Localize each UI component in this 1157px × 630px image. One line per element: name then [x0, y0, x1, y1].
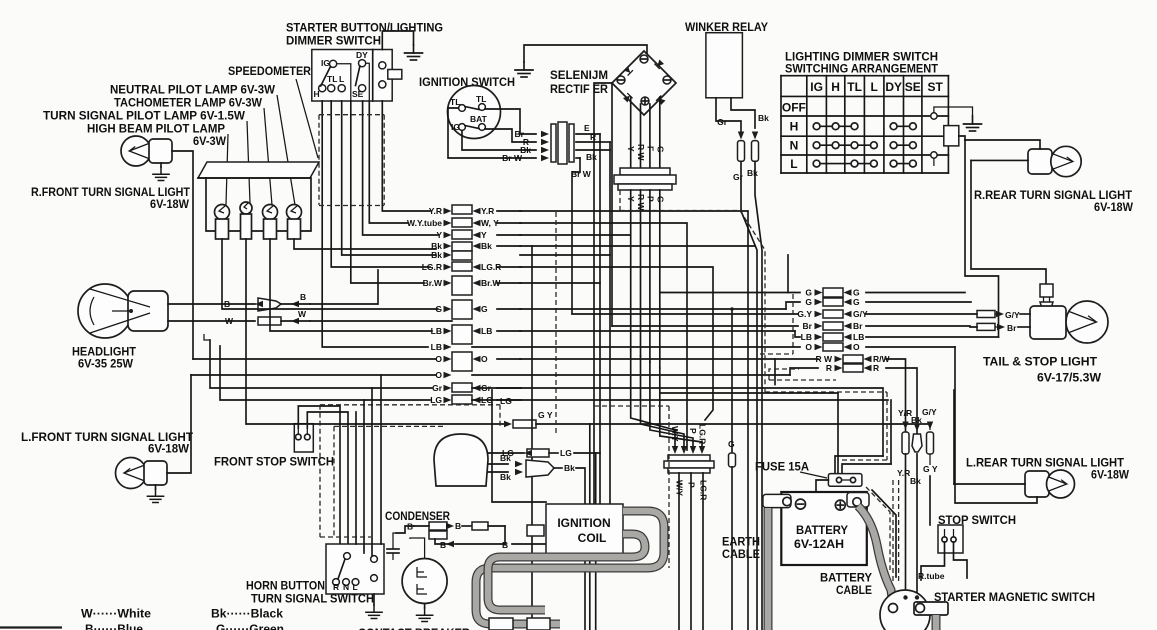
battery cable (thick): [858, 506, 893, 605]
lamp tail and stop light: [1030, 306, 1066, 339]
relay wire Bk: [731, 98, 755, 128]
terminal IG: [330, 60, 337, 67]
svg-text:TACHOMETER LAMP 6V-3W: TACHOMETER LAMP 6V-3W: [114, 96, 263, 110]
wire SE from dimmer: [363, 101, 438, 235]
pilot lamp bulb 3 (tachometer): [263, 205, 278, 220]
svg-text:B······Blue: B······Blue: [85, 622, 143, 630]
wire rectifier left corner: [594, 83, 612, 560]
wire IG from dimmer: [351, 101, 424, 283]
svg-text:SPEEDOMETER: SPEEDOMETER: [228, 64, 311, 78]
svg-text:IGNITION: IGNITION: [557, 516, 610, 530]
svg-text:Gr: Gr: [717, 117, 728, 127]
harness run Y: [520, 234, 631, 236]
wires ignition switch to connector: [485, 109, 536, 134]
table contacts row N: [813, 142, 916, 149]
svg-text:Y: Y: [481, 230, 487, 240]
svg-text:STARTER BUTTON/LIGHTING: STARTER BUTTON/LIGHTING: [286, 21, 443, 35]
svg-text:Br: Br: [853, 321, 863, 331]
earth cable (thick): [764, 508, 773, 630]
wire to r.rear lamp (top): [965, 140, 1040, 149]
harness run G: [520, 308, 786, 310]
wire H from dimmer: [322, 101, 428, 347]
starter button contacts: [379, 62, 386, 69]
rear connector row G y=302: [823, 298, 843, 306]
wires below bullets: [741, 161, 757, 630]
bullet connector G: [731, 309, 733, 453]
terminal DY: [359, 60, 366, 67]
condenser capacitor symbol: [393, 533, 396, 549]
svg-text:STARTER MAGNETIC SWITCH: STARTER MAGNETIC SWITCH: [934, 590, 1095, 604]
svg-text:LG: LG: [430, 395, 442, 405]
svg-text:R: R: [590, 132, 596, 142]
spark plug cable outer: [476, 511, 664, 624]
ground near rectifier feed: [524, 45, 647, 62]
svg-text:NEUTRAL PILOT LAMP 6V-3W: NEUTRAL PILOT LAMP 6V-3W: [110, 83, 276, 97]
dashed run to starter: [866, 487, 890, 570]
harness branch down from horn LG: [595, 453, 597, 630]
wire speedo bulb3 down: [270, 239, 432, 331]
hb switch lever: [338, 559, 345, 579]
dashed boundary near alternator: [594, 405, 669, 407]
svg-text:P: P: [646, 196, 656, 202]
fuse 15A: [828, 474, 862, 487]
horn body: [434, 434, 488, 486]
connector row Gr y=388: [452, 383, 472, 392]
pilot lamp bulb 4 (neutral): [287, 205, 302, 220]
rear connector row R y=368: [843, 364, 863, 372]
wire E down: [599, 134, 601, 142]
bundle vertical x838: [660, 393, 838, 473]
wires into hb switch: [355, 412, 357, 544]
svg-text:B: B: [224, 299, 230, 309]
rear connector row G y=292.5: [823, 288, 843, 297]
svg-text:RECTIF ER: RECTIF ER: [550, 82, 608, 96]
svg-text:FRONT STOP SWITCH: FRONT STOP SWITCH: [214, 455, 334, 469]
scan artifact bar bottom left: [0, 626, 62, 628]
wire Br.W down: [572, 158, 580, 314]
wire to r.rear lamp (side): [971, 159, 1028, 161]
rectifier plus terminal bottom: [641, 97, 649, 105]
svg-text:LB: LB: [431, 342, 442, 352]
svg-text:Gr: Gr: [432, 383, 443, 393]
terminal TL: [328, 85, 335, 92]
svg-text:Bk······Black: Bk······Black: [211, 607, 283, 621]
wire L from dimmer: [342, 101, 436, 255]
svg-text:BATTERY: BATTERY: [796, 523, 848, 537]
connector row Y.R y=211: [452, 205, 472, 214]
svg-text:DIMMER SWITCH: DIMMER SWITCH: [286, 34, 381, 48]
svg-text:G/Y: G/Y: [1005, 310, 1020, 320]
svg-text:HORN BUTTON: HORN BUTTON: [246, 579, 325, 593]
svg-text:O: O: [853, 342, 860, 352]
ig-switch lever bottom: [465, 126, 479, 129]
ig-switch terminal TL: [459, 105, 466, 112]
svg-text:Y.R: Y.R: [897, 468, 910, 478]
hb switch terminals: [344, 553, 351, 560]
harness run Y.R: [520, 211, 748, 630]
lamp R front turn signal: [121, 136, 151, 166]
ground below l.front lamp: [147, 489, 163, 503]
svg-text:TL: TL: [450, 97, 460, 107]
dashed battery harness: [892, 480, 894, 582]
svg-text:H: H: [314, 89, 320, 99]
svg-text:LB: LB: [853, 332, 864, 342]
starter cable stub: [932, 615, 941, 630]
pilot lamp bulb 1 (high beam): [215, 205, 230, 220]
rectifier output connector: [620, 168, 670, 175]
harness run LB2: [472, 346, 800, 348]
dashed harness vertical: [555, 212, 557, 436]
spark plug caps: [489, 618, 513, 630]
lamp l.front turn signal: [116, 458, 147, 489]
connector right-side wires: [576, 133, 600, 135]
harness run Gr: [472, 388, 883, 456]
lighting dimmer switch arrangement table: [781, 76, 948, 173]
leads below connector: [630, 190, 632, 350]
staircase wires left field: [193, 358, 436, 360]
ground near dimmer switch: [405, 45, 423, 60]
svg-text:CONTACT BREAKER: CONTACT BREAKER: [358, 626, 470, 630]
bundle verticals to fuse: [890, 400, 892, 464]
svg-text:LG.R: LG.R: [698, 424, 708, 444]
svg-text:IG: IG: [451, 122, 460, 132]
svg-text:R W: R W: [636, 144, 646, 162]
wires from front stop switch: [298, 406, 340, 544]
svg-text:O: O: [481, 354, 488, 364]
stop switch pins: [296, 434, 302, 440]
harness run LB: [520, 330, 795, 332]
wire to l.rear lamp: [954, 483, 1025, 485]
inline connector B: [472, 522, 488, 530]
terminal H: [319, 85, 326, 92]
headlight wire B: [168, 303, 255, 305]
ig-switch terminal BAT: [479, 124, 486, 131]
ig-switch terminal TL2: [479, 104, 486, 111]
svg-text:COIL: COIL: [578, 531, 607, 545]
rectifier minus terminal left: [617, 76, 625, 84]
svg-text:TAIL & STOP LIGHT: TAIL & STOP LIGHT: [983, 355, 1098, 369]
svg-text:SELENIJM: SELENIJM: [550, 68, 608, 82]
svg-text:IG: IG: [321, 58, 330, 68]
harness run O2: [472, 374, 790, 376]
wire B to coil: [446, 541, 454, 547]
svg-text:W/Y: W/Y: [675, 480, 685, 496]
svg-text:W: W: [298, 309, 307, 319]
rectifier minus terminal top: [640, 55, 648, 63]
stop switch box: [938, 525, 963, 553]
wire speedo bulb2 down: [246, 239, 506, 424]
harness branch down from G.Y row: [589, 424, 591, 630]
svg-text:ST: ST: [927, 80, 943, 94]
battery plus terminal tab: [847, 493, 869, 508]
front stop switch box: [294, 424, 313, 452]
svg-text:6V-35 25W: 6V-35 25W: [78, 357, 134, 371]
bullet connector Gr: [738, 141, 745, 162]
horn spade connector: [526, 460, 554, 477]
svg-text:R: R: [873, 363, 879, 373]
svg-text:L: L: [790, 157, 797, 171]
rear connector row O y=347: [823, 343, 843, 351]
svg-text:B: B: [300, 292, 306, 302]
battery minus sign: [796, 499, 806, 509]
connector row Br.W y=283: [452, 276, 472, 295]
horn button turn signal switch box: [326, 544, 384, 594]
connector row Y y=235: [452, 230, 472, 239]
connector row Bk y=255: [452, 251, 472, 260]
svg-text:G: G: [805, 297, 812, 307]
svg-text:Br W: Br W: [502, 153, 523, 163]
svg-text:Bk: Bk: [481, 241, 492, 251]
dimmer lever DY-SE: [356, 66, 360, 86]
dimmer lever IG-H: [321, 67, 331, 87]
svg-text:Br.W: Br.W: [423, 278, 443, 288]
svg-text:W: W: [225, 316, 234, 326]
svg-text:P: P: [687, 482, 697, 488]
connector row Bk y=246: [452, 242, 472, 251]
svg-text:Y: Y: [626, 146, 636, 152]
ignition harness connector: [551, 124, 556, 162]
ST column relay box: [944, 126, 959, 146]
terminal L: [338, 85, 345, 92]
harness run Bk2: [520, 254, 610, 256]
rectifier output leads Y / RW / F / G: [630, 97, 632, 168]
ignition coil box: [546, 504, 623, 556]
wire end dots: [903, 595, 907, 599]
r.rear feed verticals: [965, 140, 999, 337]
pilot lamp bulb 2 (turn signal): [240, 202, 252, 214]
condenser blocks: [429, 522, 447, 530]
alternator connector: [668, 455, 710, 461]
svg-text:BAT: BAT: [470, 114, 488, 124]
svg-text:IG: IG: [810, 80, 823, 94]
svg-text:TURN SIGNAL PILOT LAMP 6V-1.5W: TURN SIGNAL PILOT LAMP 6V-1.5W: [43, 109, 246, 123]
connector row W.Y.tube y=223: [452, 218, 472, 227]
table contacts row H: [813, 123, 916, 130]
svg-text:Bk: Bk: [564, 463, 575, 473]
ground below hb switch: [373, 594, 375, 605]
svg-text:LG: LG: [560, 448, 572, 458]
stop switch wires: [921, 542, 945, 580]
lamp headlight: [78, 284, 132, 338]
svg-text:L: L: [339, 74, 344, 84]
svg-text:Bk: Bk: [586, 152, 597, 162]
svg-text:W.Y: W.Y: [670, 426, 680, 442]
speedometer housing: [198, 162, 319, 178]
svg-text:6V-3W: 6V-3W: [193, 134, 227, 148]
harness run Br.W: [520, 282, 600, 284]
connector row G y=309: [452, 300, 472, 319]
rear connector row LB y=337: [823, 333, 843, 341]
svg-text:G: G: [656, 146, 666, 153]
battery plus sign: [835, 500, 845, 510]
svg-text:DY: DY: [356, 50, 368, 60]
svg-text:DY: DY: [885, 80, 902, 94]
svg-text:Bk: Bk: [747, 168, 758, 178]
svg-text:H: H: [790, 120, 799, 134]
wire LG right: [472, 399, 888, 401]
starter magnetic switch: [880, 590, 930, 630]
svg-text:G: G: [656, 196, 666, 203]
svg-text:TL: TL: [476, 94, 486, 104]
ground below r.front lamp: [153, 167, 169, 181]
ignition switch body: [448, 86, 501, 139]
alternator leads downward: [678, 473, 680, 630]
svg-text:TL: TL: [327, 74, 337, 84]
horn wire LG: [488, 452, 524, 454]
wires from IG and DY to box bottom: [337, 64, 351, 101]
connector row O y=359: [452, 352, 472, 371]
lamp r.rear turn signal: [1028, 149, 1052, 174]
rear connector row Br y=326: [823, 322, 843, 330]
svg-text:P: P: [688, 428, 698, 434]
svg-text:WINKER RELAY: WINKER RELAY: [685, 20, 768, 34]
spade connector B: [258, 298, 281, 311]
bullet connector Bk: [752, 141, 759, 162]
harness run Bk: [520, 245, 755, 247]
svg-text:B: B: [440, 540, 446, 550]
starter button / lighting dimmer switch box: [312, 50, 392, 102]
svg-text:SE: SE: [905, 80, 921, 94]
svg-text:6V-17/5.3W: 6V-17/5.3W: [1037, 371, 1102, 385]
svg-text:N: N: [790, 139, 799, 153]
selenium rectifier bridge: [612, 51, 676, 115]
rectifier minus terminal right: [663, 76, 671, 84]
svg-text:N: N: [343, 582, 349, 592]
svg-text:G/Y: G/Y: [922, 407, 937, 417]
rear connector row R/W y=359: [843, 355, 863, 363]
svg-text:LB: LB: [481, 326, 492, 336]
fuse output to battery: [816, 480, 828, 492]
svg-text:G: G: [728, 439, 735, 449]
battery box: [781, 492, 867, 565]
dashed harness run: [619, 190, 621, 211]
wire speedo bulb1 down: [222, 239, 438, 309]
battery minus terminal tab: [763, 494, 791, 507]
svg-text:F: F: [646, 146, 656, 151]
svg-text:W.Y.tube: W.Y.tube: [407, 218, 442, 228]
svg-text:Br: Br: [803, 321, 813, 331]
headlight wire W: [168, 320, 255, 322]
wire speedo bulb4 down: [294, 239, 436, 249]
svg-text:G.Y: G.Y: [797, 309, 812, 319]
rear column right-side runs: [866, 292, 965, 294]
inline connector W: [258, 317, 281, 325]
diode marks: [623, 66, 633, 76]
relay wire Gr: [716, 98, 741, 135]
svg-text:Bk: Bk: [500, 453, 511, 463]
svg-text:L: L: [353, 582, 358, 592]
svg-text:CONDENSER: CONDENSER: [385, 509, 450, 523]
svg-text:LG.R: LG.R: [699, 480, 709, 500]
tail light connector G/Y: [977, 311, 995, 318]
svg-text:Br: Br: [1007, 323, 1017, 333]
winker relay box: [706, 33, 743, 98]
terminal SE: [359, 85, 366, 92]
svg-text:Y: Y: [626, 196, 636, 202]
dashed harness boundary front area: [320, 404, 500, 406]
svg-text:TL: TL: [847, 80, 862, 94]
alternator leads from rectifier: [631, 350, 675, 450]
spark plug cable inner: [488, 534, 645, 610]
harness run O: [520, 358, 775, 360]
wire E vertical down: [599, 142, 601, 520]
svg-text:6V-18W: 6V-18W: [150, 197, 190, 211]
svg-text:CABLE: CABLE: [836, 583, 872, 597]
svg-text:R: R: [333, 582, 339, 592]
svg-text:R: R: [826, 363, 832, 373]
svg-text:Y.R: Y.R: [481, 206, 494, 216]
condenser wiring: [414, 525, 429, 527]
svg-text:SE: SE: [352, 89, 364, 99]
dashed harness boundary below dimmer switch: [319, 114, 384, 116]
coil feed from top: [492, 390, 546, 502]
svg-text:G: G: [853, 297, 860, 307]
svg-text:Br W: Br W: [571, 169, 592, 179]
tail light connector Br: [977, 323, 995, 330]
svg-text:Bk: Bk: [500, 472, 511, 482]
svg-text:G······Green: G······Green: [216, 622, 284, 630]
svg-text:Bk: Bk: [758, 113, 769, 123]
svg-text:SWITCHING ARRANGEMENT: SWITCHING ARRANGEMENT: [785, 62, 939, 76]
svg-text:6V-18W: 6V-18W: [148, 442, 190, 456]
svg-text:G Y: G Y: [538, 410, 553, 420]
svg-text:OFF: OFF: [782, 101, 806, 115]
coil stub connector: [527, 525, 544, 536]
svg-text:W······White: W······White: [81, 607, 151, 621]
connector row LB y=331: [452, 325, 472, 344]
svg-text:Gr: Gr: [733, 172, 744, 182]
tail light connector plug: [1040, 284, 1053, 297]
wire DY from dimmer: [369, 101, 408, 223]
ground below contact breaker: [417, 608, 433, 622]
connector row LG.R y=267: [452, 262, 472, 271]
wire G.Y row: [504, 421, 512, 427]
ig-switch lever top: [465, 107, 479, 110]
rear column left feeds: [660, 292, 788, 294]
svg-text:CABLE: CABLE: [722, 547, 760, 561]
svg-text:H: H: [831, 80, 840, 94]
dashed bits near rear column: [792, 294, 794, 354]
wire dimmer box to ground: [382, 31, 413, 50]
svg-text:G: G: [805, 288, 812, 298]
svg-text:Bk: Bk: [910, 476, 921, 486]
wire starter button from dimmer: [382, 101, 430, 211]
svg-text:LB: LB: [801, 332, 812, 342]
svg-text:B: B: [502, 540, 508, 550]
ig-switch terminal IG: [459, 124, 466, 131]
table contacts row L: [813, 160, 916, 167]
wire from ST box down: [959, 136, 965, 140]
svg-text:O: O: [805, 342, 812, 352]
wire r.front lamp to harness: [172, 151, 193, 359]
svg-text:LG: LG: [500, 396, 512, 406]
rear connector row G/Y y=314: [823, 310, 843, 318]
wire TL from dimmer: [331, 101, 430, 267]
lamp l.rear turn signal: [1025, 471, 1049, 497]
contact breaker: [402, 559, 447, 604]
ground for ST contact: [964, 116, 982, 131]
svg-text:L: L: [870, 80, 877, 94]
ST column upper contact: [931, 113, 937, 119]
svg-text:FUSE 15A: FUSE 15A: [755, 460, 809, 474]
leader lines from captions to speedometer bulbs: [277, 95, 295, 205]
harness run LG.R: [520, 267, 713, 420]
horn wires Bk: [488, 463, 508, 465]
harness branch Bk down: [531, 246, 533, 630]
svg-text:6V-18W: 6V-18W: [1094, 200, 1134, 214]
ST column lower contact: [931, 152, 937, 158]
wire R vertical down: [600, 141, 610, 143]
